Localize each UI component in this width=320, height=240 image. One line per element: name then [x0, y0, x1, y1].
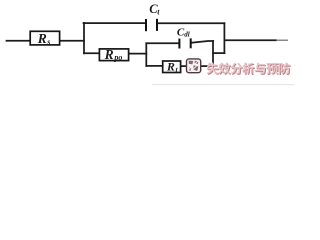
wire bottom rail [84, 52, 99, 54]
watermark underline [152, 84, 294, 86]
label Cdl [177, 26, 190, 38]
svg-text:s: s [46, 37, 50, 46]
wire top rail left [84, 22, 146, 24]
label Ct [149, 2, 160, 16]
svg-text:t: t [157, 7, 160, 16]
svg-text:dl: dl [184, 30, 190, 38]
wire Rpo to node C [129, 53, 147, 55]
wire top rail right [158, 22, 225, 24]
node D inner right vertical wire [212, 41, 214, 66]
wire Rs to node A [60, 40, 84, 42]
resistor R_t [163, 61, 181, 73]
watermark text 失效分析与预防 [207, 62, 290, 74]
svg-text:R: R [37, 31, 47, 46]
watermark logo [187, 59, 201, 73]
capacitor C_t [146, 19, 157, 31]
resistor R_s [30, 31, 59, 45]
node A left vertical wire [83, 23, 85, 53]
wire Rt to node D [181, 65, 213, 67]
resistor R_po [99, 49, 128, 61]
label Rpo [104, 47, 123, 62]
svg-text:po: po [113, 53, 122, 62]
svg-text:R: R [166, 60, 175, 74]
svg-text:R: R [104, 47, 114, 62]
wire input left [7, 40, 31, 42]
watermark text shadow [208, 63, 291, 75]
wire inner top branch [146, 42, 178, 44]
wire Cdl to node D [191, 41, 213, 43]
label Rs [37, 31, 51, 46]
node C inner left vertical wire [145, 43, 147, 66]
capacitor C_dl [179, 38, 190, 48]
wire inner bottom branch [146, 65, 162, 67]
wire output faded tail [276, 39, 288, 41]
label Rt [166, 60, 179, 74]
wire output right [224, 39, 276, 41]
node B right vertical wire [223, 23, 225, 53]
wire exit parallel block [213, 52, 224, 54]
